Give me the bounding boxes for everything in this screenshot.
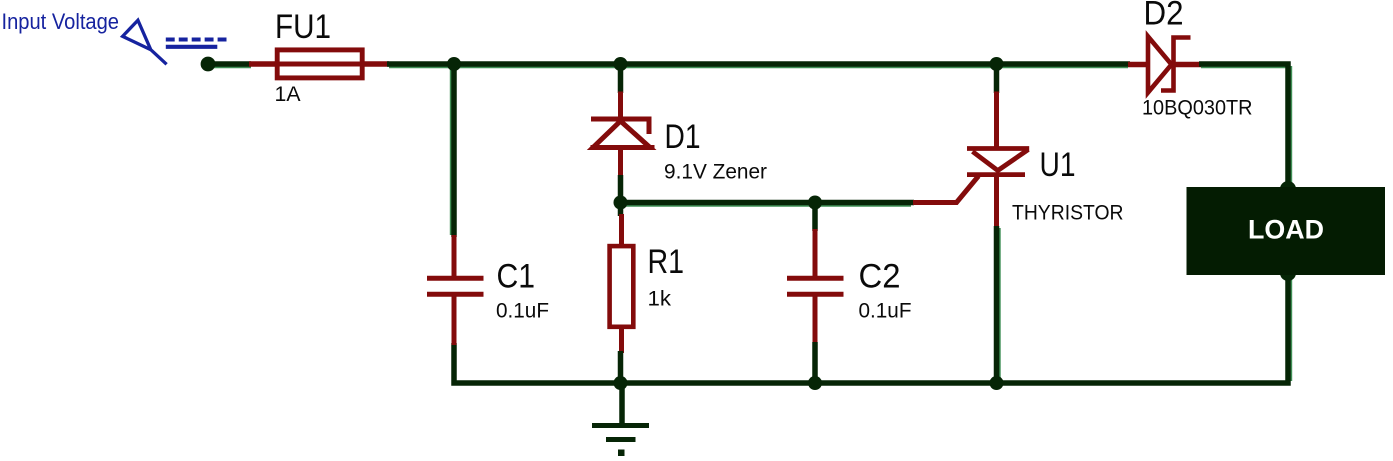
thyristor U1 red anode pin bbox=[994, 92, 999, 150]
ground symbol bbox=[592, 383, 649, 456]
resistor R1 red bottom pin bbox=[619, 329, 624, 353]
node junction dot C1 top bbox=[447, 57, 461, 71]
capacitor C1 red bottom pin bbox=[452, 296, 457, 346]
wire U1 anode green upper stub bbox=[994, 64, 1000, 93]
capacitor C2 plates bbox=[787, 278, 844, 294]
wire D1 branch green upper stub bbox=[618, 64, 624, 93]
svg-text:C2: C2 bbox=[859, 257, 901, 295]
wire U1 cathode green lower bbox=[994, 226, 1000, 383]
wire C1 branch green upper bbox=[451, 64, 457, 237]
zener D1 red bottom pin bbox=[618, 148, 623, 178]
wire R1 green upper stub bbox=[618, 203, 624, 217]
thyristor U1 triangle bbox=[967, 149, 1029, 171]
wire fringe highlights (resample artifact coloring) bbox=[214, 66, 1291, 381]
svg-text:10BQ030TR: 10BQ030TR bbox=[1142, 95, 1253, 119]
wire red pin right of fuse FU1 bbox=[363, 61, 389, 67]
svg-text:0.1uF: 0.1uF bbox=[859, 299, 912, 323]
capacitor C1 red top pin bbox=[452, 235, 457, 277]
zener D1 anode base line bbox=[591, 145, 655, 150]
svg-text:D2: D2 bbox=[1144, 0, 1184, 32]
wire red pin right of diode D2 bbox=[1174, 62, 1201, 68]
diode D2 cathode bar with schottky hooks bbox=[1161, 38, 1191, 91]
svg-text:9.1V Zener: 9.1V Zener bbox=[664, 160, 767, 184]
wire top rail green segment from fuse to diode D2 bbox=[387, 61, 1130, 67]
zener D1 cathode bar with right hook bbox=[591, 119, 649, 134]
node junction dot input bbox=[201, 57, 216, 72]
svg-text:D1: D1 bbox=[665, 118, 701, 156]
input voltage arrow pointer bbox=[123, 20, 167, 64]
wire C2 branch green lower stub bbox=[812, 342, 818, 383]
resistor R1 body bbox=[610, 246, 634, 327]
LOAD box bbox=[1187, 187, 1386, 275]
input voltage dashed line bbox=[166, 37, 227, 41]
wire gate net middle rail bbox=[621, 200, 915, 206]
svg-text:THYRISTOR: THYRISTOR bbox=[1012, 201, 1124, 225]
capacitor C1 plates bbox=[427, 278, 484, 294]
thyristor U1 red cathode pin bbox=[994, 175, 999, 228]
svg-text:U1: U1 bbox=[1040, 146, 1076, 184]
node junction dot D1 top bbox=[614, 57, 628, 71]
svg-text:0.1uF: 0.1uF bbox=[496, 299, 549, 323]
node junction dot U1 bottom bbox=[990, 376, 1004, 390]
svg-text:R1: R1 bbox=[648, 243, 685, 281]
svg-text:1k: 1k bbox=[648, 287, 672, 311]
resistor R1 red top pin bbox=[619, 214, 624, 245]
node junction dot C2 bottom bbox=[808, 376, 822, 390]
zener D1 triangle bbox=[593, 121, 650, 148]
wire from LOAD bottom to bottom rail and bottom rail to C1 leg bbox=[454, 273, 1288, 383]
node junction dot D1/R1 gate bbox=[614, 196, 628, 210]
svg-text:FU1: FU1 bbox=[275, 8, 331, 46]
node junction dot R1 bottom bbox=[614, 376, 628, 390]
wire C2 branch green upper stub bbox=[812, 203, 818, 232]
capacitor C2 red bottom pin bbox=[813, 296, 818, 345]
capacitor C2 red top pin bbox=[813, 229, 818, 277]
svg-text:Input Voltage: Input Voltage bbox=[2, 9, 120, 34]
svg-text:1A: 1A bbox=[275, 82, 302, 106]
svg-text:C1: C1 bbox=[497, 257, 536, 295]
node junction dot LOAD bottom bbox=[1280, 265, 1296, 281]
input voltage solid line bbox=[166, 45, 218, 49]
node junction dot LOAD top bbox=[1280, 181, 1296, 197]
node junction dot C2 top bbox=[808, 196, 822, 210]
node junction dot U1 top bbox=[990, 57, 1004, 71]
wire red pin left of diode D2 bbox=[1128, 62, 1150, 68]
zener D1 red top pin bbox=[618, 92, 623, 119]
fuse FU1 body bbox=[275, 50, 365, 78]
thyristor U1 cathode bar bbox=[967, 172, 1025, 177]
svg-text:LOAD: LOAD bbox=[1248, 215, 1324, 245]
wire R1 green lower stub bbox=[618, 351, 624, 383]
wire top rail green segment from input node to fuse bbox=[211, 61, 251, 67]
wire red pin left of fuse FU1 bbox=[249, 61, 277, 67]
wire D1 branch green lower stub bbox=[618, 175, 624, 203]
wire top rail right corner down to LOAD bbox=[1199, 64, 1288, 189]
thyristor U1 gate lead bbox=[913, 176, 979, 203]
diode D2 triangle bbox=[1148, 37, 1172, 93]
